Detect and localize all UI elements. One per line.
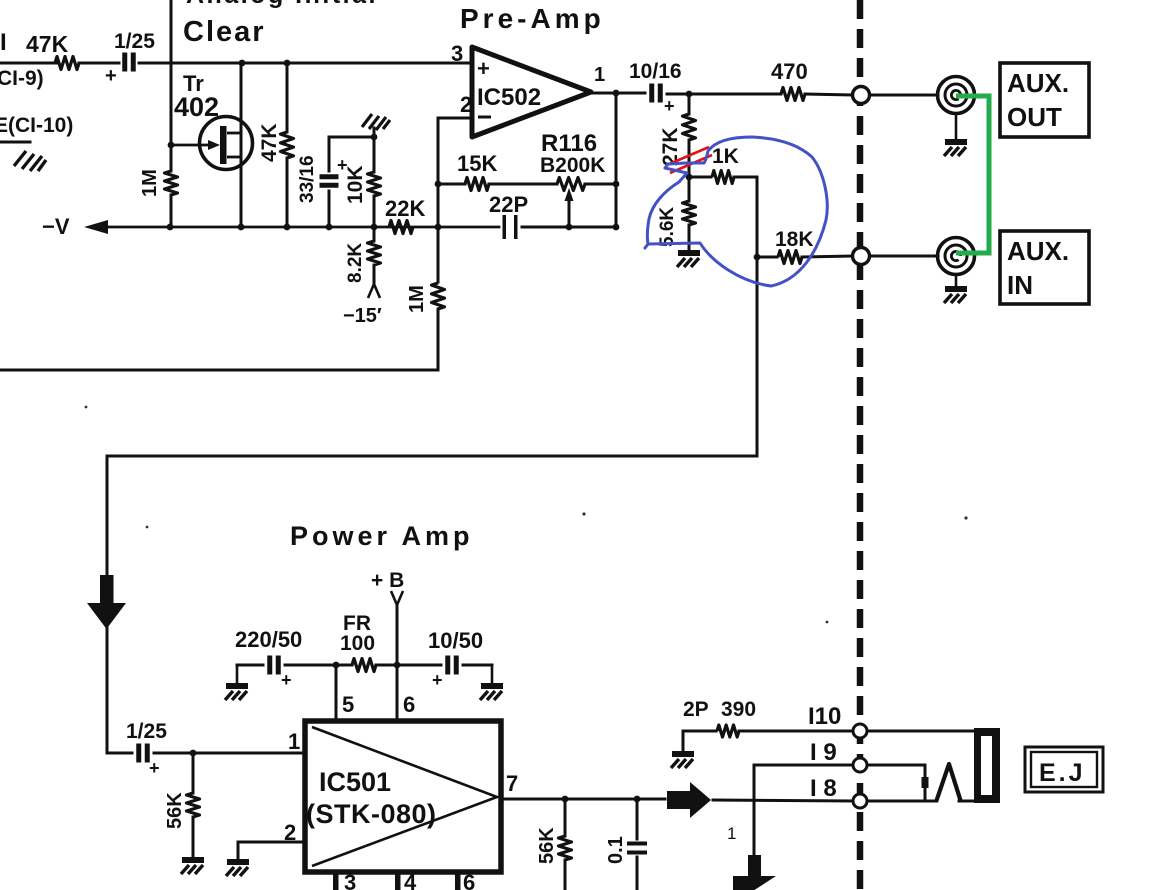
- node top wire at Tr collector: [239, 60, 246, 67]
- capacitor 1/25: [122, 53, 127, 72]
- capacitor 22P: [503, 215, 507, 239]
- wire 27K upper: [688, 94, 691, 114]
- svg-text:100: 100: [340, 632, 375, 655]
- node 56K pin7: [562, 796, 569, 803]
- wire pin7: [501, 798, 665, 801]
- earphone jack sleeve: [974, 728, 1000, 803]
- svg-text:15K: 15K: [457, 151, 497, 176]
- jack tip contact: [936, 764, 961, 802]
- wire 56K pin7 lower: [564, 860, 567, 890]
- node rail Tr: [238, 224, 245, 231]
- wire pin to RCA out: [870, 94, 938, 97]
- node top wire at 47K: [284, 60, 291, 67]
- box AUX OUT: [1000, 63, 1089, 137]
- wire 33/16 top: [328, 191, 331, 227]
- svg-text:390: 390: [721, 698, 756, 721]
- ground 56K pin1: [181, 860, 204, 874]
- wire 1K left: [689, 176, 711, 179]
- blue freehand circle annotation: [645, 137, 827, 286]
- ground 10K top: [362, 114, 390, 130]
- svg-text:56K: 56K: [164, 792, 186, 829]
- wire 27K lower: [688, 140, 691, 177]
- svg-text:1: 1: [288, 729, 300, 754]
- wire 22P to feedback node: [522, 226, 616, 229]
- capacitor 10/16: [649, 84, 654, 103]
- wire 10K to rail: [373, 196, 376, 227]
- node Tr base: [168, 142, 175, 149]
- speck 3: [826, 621, 829, 624]
- svg-text:+: +: [664, 96, 675, 116]
- node feedback 15K: [435, 181, 442, 188]
- RCA jack AUX IN: [938, 238, 975, 275]
- svg-text:402: 402: [174, 92, 219, 122]
- svg-text:7: 7: [506, 771, 518, 796]
- wire 2P corner: [683, 731, 716, 750]
- svg-text:1M: 1M: [139, 169, 161, 197]
- flow arrow down speaker: [733, 855, 776, 890]
- wire 56K pin1 lower: [192, 817, 195, 858]
- svg-text:1: 1: [727, 824, 736, 843]
- svg-text:10/50: 10/50: [428, 628, 483, 653]
- ground RCA out: [944, 142, 967, 156]
- svg-text:+: +: [149, 758, 160, 778]
- wire 1/25b to pin1: [154, 752, 305, 755]
- svg-text:10/16: 10/16: [629, 60, 682, 83]
- wire 220/50 to FR100: [285, 664, 352, 667]
- svg-text:1K: 1K: [712, 145, 739, 168]
- svg-text:1/25: 1/25: [114, 30, 155, 53]
- svg-text:B200K: B200K: [540, 154, 605, 177]
- resistor 390: [717, 725, 739, 737]
- svg-text:+ B: + B: [371, 569, 404, 592]
- svg-text:1M: 1M: [406, 285, 428, 313]
- ground 220/50: [225, 686, 248, 700]
- wire pin5: [335, 665, 338, 721]
- wire 47K vertical top: [286, 63, 289, 132]
- wire 1K right: [734, 176, 757, 179]
- box AUX IN: [1000, 231, 1089, 304]
- node rail 10K: [371, 224, 378, 231]
- node rail 33/16: [326, 224, 333, 231]
- svg-text:IC501: IC501: [319, 767, 391, 797]
- svg-text:AUX.: AUX.: [1007, 236, 1069, 266]
- node 18K junction: [754, 254, 761, 261]
- resistor 27K: [683, 114, 696, 140]
- ground pin2: [226, 862, 249, 876]
- wire RCA out ground stem: [955, 114, 958, 140]
- svg-text:22P: 22P: [489, 192, 528, 217]
- -15 terminal: [368, 284, 380, 298]
- svg-text:(CI-9): (CI-9): [0, 67, 44, 90]
- wire I9 right: [867, 765, 925, 799]
- node rail 1M: [167, 224, 174, 231]
- wire rail left ground drop: [236, 665, 239, 684]
- svg-text:−15′: −15′: [343, 305, 382, 327]
- ground RCA in: [944, 289, 967, 303]
- wire 390 to I10: [739, 730, 853, 733]
- capacitor 0.1: [627, 842, 647, 846]
- transistor Tr402: [171, 117, 253, 170]
- wire junction vertical: [756, 177, 759, 456]
- ground 5.6K: [677, 253, 700, 267]
- node rail wiper: [566, 224, 573, 231]
- capacitor 10/50: [445, 656, 450, 675]
- wire input to pin3: [0, 62, 58, 65]
- wire +B vertical: [396, 605, 399, 721]
- resistor 8.2K: [368, 241, 381, 265]
- svg-text:4: 4: [404, 870, 417, 890]
- svg-text:I10: I10: [808, 703, 841, 730]
- node rail 47K: [284, 224, 291, 231]
- speck 4: [85, 406, 88, 409]
- svg-text:E.J: E.J: [1039, 759, 1086, 787]
- node 1K 5.6K junction: [686, 174, 693, 181]
- svg-text:47K: 47K: [26, 31, 69, 57]
- svg-text:33/16: 33/16: [297, 155, 318, 203]
- wire preamp to poweramp: [107, 456, 757, 753]
- svg-text:+: +: [477, 56, 490, 81]
- wire 10/50 right: [463, 664, 492, 667]
- resistor 22K: [389, 221, 413, 234]
- wire feedback bottom long: [0, 369, 438, 372]
- capacitor 33/16: [320, 174, 339, 179]
- wire to 1/25b: [107, 752, 132, 755]
- wire pin2: [238, 842, 305, 860]
- resistor 18K: [778, 251, 802, 264]
- box Analog-Initial-Clear left edge: [170, 0, 173, 63]
- node 10K top junction: [371, 134, 378, 141]
- connector pin I8: [853, 794, 867, 808]
- speck 2: [964, 516, 967, 519]
- wire 470 to pin circle: [805, 94, 852, 95]
- svg-text:IC502: IC502: [477, 84, 541, 111]
- resistor 470: [781, 88, 805, 101]
- wire pin to RCA in: [870, 255, 938, 258]
- potentiometer R116 B200K: [557, 178, 585, 191]
- wire E(CI-10) stub: [0, 141, 30, 144]
- wire feedback vertical upper: [437, 118, 440, 282]
- resistor 5.6K: [683, 201, 696, 225]
- svg-text:E(CI-10): E(CI-10): [0, 114, 73, 137]
- resistor 10K: [368, 172, 381, 196]
- wire I10 right: [867, 730, 975, 733]
- wire 5.6K upper: [688, 177, 691, 201]
- svg-text:0.1: 0.1: [605, 836, 627, 864]
- ground 2P: [671, 754, 694, 768]
- speck 5: [146, 526, 149, 529]
- wire feedback vertical right: [615, 93, 618, 227]
- svg-text:I 8: I 8: [810, 775, 837, 802]
- svg-text:10K: 10K: [344, 165, 367, 204]
- svg-text:Clear: Clear: [183, 16, 266, 48]
- wire 47K to cap: [79, 62, 119, 65]
- resistor 15K: [465, 178, 489, 191]
- svg-text:18K: 18K: [775, 228, 814, 251]
- svg-text:OUT: OUT: [1007, 102, 1062, 132]
- +B terminal: [391, 591, 403, 605]
- svg-text:47K: 47K: [258, 123, 281, 162]
- wire 18K right: [802, 256, 852, 257]
- capacitor 220/50: [267, 656, 272, 675]
- wire 47K vertical bottom: [286, 158, 289, 227]
- node +B rail: [394, 662, 401, 669]
- wire rail left end: [237, 664, 263, 667]
- -V arrowhead: [84, 220, 108, 234]
- resistor 56K pin1: [187, 793, 200, 817]
- node 56K pin1: [190, 750, 197, 757]
- ground 10/50: [480, 686, 503, 700]
- svg-text:+: +: [281, 670, 292, 690]
- amplifier IC501 box: [305, 721, 501, 872]
- wire Tr collector-emitter vertical: [240, 63, 243, 227]
- wire op-amp output: [591, 92, 645, 95]
- flow arrow right: [667, 782, 711, 818]
- wire 0.1 upper: [636, 799, 639, 839]
- wire 18K left: [757, 256, 777, 259]
- wire rail right ground drop: [491, 665, 494, 684]
- resistor FR100: [352, 659, 376, 672]
- svg-text:5.6K: 5.6K: [657, 207, 678, 247]
- svg-text:22K: 22K: [385, 196, 425, 221]
- svg-text:8.2K: 8.2K: [345, 243, 366, 283]
- wire 8.2K upper: [373, 227, 376, 241]
- svg-text:1: 1: [594, 64, 605, 86]
- svg-text:I 9: I 9: [810, 739, 837, 766]
- svg-text:3: 3: [344, 870, 356, 890]
- svg-text:+: +: [432, 670, 443, 690]
- wire cap to 470: [667, 93, 781, 96]
- svg-text:6: 6: [403, 692, 415, 717]
- svg-text:Analog Initial: Analog Initial: [186, 0, 378, 9]
- svg-text:Power Amp: Power Amp: [290, 521, 474, 551]
- svg-text:R116: R116: [541, 130, 597, 157]
- node 15K R116 right: [613, 181, 620, 188]
- node output feedback: [613, 90, 620, 97]
- pin 6b stub: [455, 872, 461, 890]
- connector pin I9: [853, 758, 867, 772]
- wire RCA in ground stem: [955, 275, 958, 287]
- RCA jack AUX OUT: [938, 77, 975, 114]
- svg-text:IN: IN: [1007, 270, 1033, 300]
- resistor 47K vertical: [281, 132, 294, 158]
- svg-text:(STK-080): (STK-080): [306, 799, 437, 829]
- board edge dashed line: [857, 0, 864, 890]
- wire 10K from ground: [373, 128, 376, 172]
- connector pin AUX OUT: [853, 87, 870, 104]
- pin 4 stub: [395, 872, 401, 890]
- pin 3 stub: [333, 872, 339, 890]
- node 27K top: [686, 91, 693, 98]
- svg-text:56K: 56K: [536, 827, 558, 864]
- svg-text:2P: 2P: [683, 698, 709, 721]
- svg-text:6: 6: [463, 870, 475, 890]
- wire 1M to rail: [170, 195, 173, 227]
- op-amp IC502: [472, 47, 591, 137]
- wire R116 wiper: [568, 199, 571, 227]
- wire 56K pin1 upper: [192, 753, 195, 793]
- svg-text:−V: −V: [42, 214, 70, 239]
- resistor 47K: [55, 57, 79, 70]
- svg-text:5: 5: [342, 692, 354, 717]
- wire 15K left: [438, 183, 465, 186]
- wire FR100 to +B node: [376, 664, 441, 667]
- node cap 0.1: [634, 796, 641, 803]
- capacitor 1/25 second: [136, 744, 141, 763]
- wire 56K pin7 vertical: [564, 799, 567, 836]
- resistor 56K pin7: [559, 836, 572, 860]
- flow arrow down left: [87, 575, 126, 629]
- connector pin I10: [853, 724, 867, 738]
- svg-text:220/50: 220/50: [235, 627, 302, 652]
- wire feedback vertical lower: [437, 309, 440, 370]
- svg-text:2: 2: [460, 92, 472, 117]
- node rail 22K-right: [435, 224, 442, 231]
- wire arrow to I8: [713, 800, 853, 801]
- svg-text:470: 470: [771, 59, 808, 84]
- resistor 1M second: [432, 283, 445, 309]
- ground E(CI-10): [14, 151, 46, 171]
- box E.J: [1025, 747, 1103, 792]
- wire R116 right: [585, 183, 616, 186]
- resistor 1M: [165, 171, 178, 195]
- svg-text:AUX.: AUX.: [1007, 68, 1069, 98]
- node pin5 rail: [333, 662, 340, 669]
- svg-text:+: +: [105, 65, 117, 87]
- svg-text:Pre-Amp: Pre-Amp: [460, 3, 605, 34]
- green patch cable highlight: [956, 96, 989, 253]
- wire op-amp pin2 stub: [438, 117, 472, 120]
- wire 8.2K lower: [373, 265, 376, 283]
- switch contact tick: [922, 777, 929, 788]
- resistor 1K: [712, 171, 734, 184]
- svg-text:SI: SI: [0, 29, 7, 56]
- wire 5.6K lower: [688, 225, 691, 251]
- amplifier IC501 triangle: [312, 727, 497, 866]
- wire tip to sleeve: [959, 800, 981, 803]
- speck: [582, 512, 585, 515]
- node rail feedback: [613, 224, 620, 231]
- wire cap to op-amp pin3: [139, 62, 472, 65]
- connector pin AUX IN: [853, 248, 870, 265]
- op-amp minus sign: [478, 116, 491, 119]
- wire -V rail: [106, 226, 499, 229]
- svg-text:3: 3: [451, 41, 463, 66]
- wire I8 right: [867, 800, 936, 803]
- wire 33/16 upper: [329, 137, 374, 171]
- R116 wiper arrowhead: [565, 188, 574, 201]
- wire 15K to R116: [489, 183, 557, 186]
- wire 0.1 lower: [636, 857, 639, 890]
- red emphasis slashes: [667, 147, 712, 173]
- wire I9 left: [754, 765, 853, 857]
- wire vertical 1M branch: [170, 0, 173, 171]
- svg-text:1/25: 1/25: [126, 720, 167, 743]
